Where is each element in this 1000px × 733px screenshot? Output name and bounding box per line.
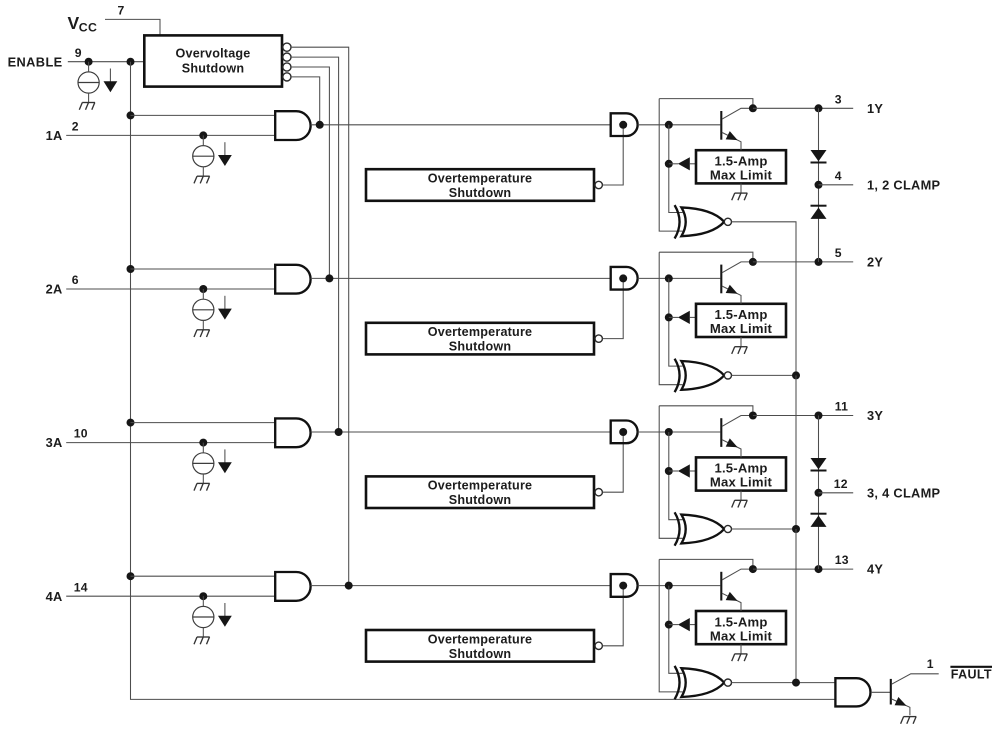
wire gate A2 output [311, 277, 611, 279]
arrow limit ch4 [678, 618, 690, 631]
bubble OT3 [595, 489, 602, 496]
wire vertical B ch4 [669, 586, 683, 674]
ground (ML2) [732, 347, 748, 354]
svg-text:Overtemperature: Overtemperature [428, 172, 533, 186]
svg-text:1Y: 1Y [867, 101, 883, 116]
wire vertical A ch2 [659, 252, 682, 385]
svg-text:Overvoltage: Overvoltage [176, 47, 251, 61]
node gate A2 output [325, 274, 333, 282]
diode D4 [811, 514, 827, 527]
wire enable bus vertical [131, 62, 836, 700]
wire ML2 ground stem [740, 337, 742, 347]
svg-text:1.5-Amp: 1.5-Amp [714, 307, 767, 322]
svg-text:5: 5 [835, 246, 842, 260]
svg-text:V: V [68, 13, 80, 33]
node output 1Y [815, 104, 823, 112]
transistor Q5 [891, 674, 939, 715]
and gate A2 [275, 265, 310, 294]
node limit feedback ch2 [665, 313, 673, 321]
node base junction ch4 [665, 582, 673, 590]
svg-text:Shutdown: Shutdown [449, 186, 511, 200]
ground (I5) [79, 103, 95, 110]
pin 4 label [835, 169, 842, 183]
svg-text:1A: 1A [46, 128, 63, 143]
transistor Q4 [721, 569, 753, 611]
wire gate G2 output [638, 277, 721, 279]
wire collector bracket ch1 [659, 99, 753, 109]
wire ML1 ground stem [740, 183, 742, 193]
current source I5 (enable) [78, 62, 99, 103]
diode D3 [811, 458, 827, 471]
svg-text:7: 7 [118, 4, 125, 18]
node output 4Y [815, 565, 823, 573]
pin 7 label [118, 4, 125, 18]
svg-text:1.5-Amp: 1.5-Amp [714, 154, 767, 169]
and gate G5 (fault) [835, 678, 870, 706]
pin 9 label [75, 46, 82, 60]
ground (Q5) [901, 717, 917, 724]
wire limit arrow ch2 [669, 316, 678, 318]
node limit feedback ch3 [665, 467, 673, 475]
node 1A tap [199, 131, 207, 139]
svg-text:Shutdown: Shutdown [449, 647, 511, 661]
pin 6 label [72, 273, 79, 287]
ground (I3) [194, 483, 210, 490]
pin 2 label [72, 120, 79, 134]
wire clamp chain 1-2 [818, 108, 820, 262]
node enable branch ch2 [127, 265, 135, 273]
svg-text:Max Limit: Max Limit [710, 168, 773, 183]
ground (I4) [194, 637, 210, 644]
svg-text:3, 4 CLAMP: 3, 4 CLAMP [867, 485, 941, 500]
pin 5 label [835, 246, 842, 260]
and gate G1 [611, 113, 638, 136]
wire X3 output [732, 528, 797, 530]
node gate A1 output [316, 121, 324, 129]
wire X1 output [732, 222, 797, 376]
wire gate G1 output [638, 124, 721, 126]
wire OT3 to gate G3 [603, 432, 624, 492]
overvoltage output bubbles [283, 43, 291, 81]
wire input 4A [66, 595, 275, 597]
wire pin 4 [819, 184, 854, 186]
label 3Y [867, 408, 883, 423]
svg-text:Max Limit: Max Limit [710, 321, 773, 336]
bubble OT1 [595, 181, 602, 188]
wire gate A4 output [311, 585, 611, 587]
wire input 2A [66, 288, 275, 290]
node inside gate G1 [619, 121, 627, 129]
wire X2 output [732, 374, 797, 376]
svg-text:Shutdown: Shutdown [449, 493, 511, 507]
bubble OT4 [595, 642, 602, 649]
svg-text:4A: 4A [46, 589, 63, 604]
label FAULT [951, 668, 992, 682]
node fault bus join [792, 679, 800, 687]
wire fault bus segment ch2 [795, 375, 797, 529]
wire overvoltage bus to channel 2 [291, 67, 329, 278]
fault overline [950, 666, 992, 668]
bubble OT2 [595, 335, 602, 342]
diode D2 [811, 206, 827, 219]
label 1Y [867, 101, 883, 116]
svg-text:4Y: 4Y [867, 562, 883, 577]
wire limit arrow ch3 [669, 470, 678, 472]
wire ML3 ground stem [740, 491, 742, 501]
svg-text:ENABLE: ENABLE [8, 54, 63, 69]
and gate A3 [275, 418, 310, 447]
svg-text:3Y: 3Y [867, 408, 883, 423]
wire arrow to box ch3 [690, 470, 696, 472]
svg-text:12: 12 [834, 477, 848, 491]
label 1, 2 CLAMP [867, 177, 941, 192]
svg-text:4: 4 [835, 169, 842, 183]
ground (ML1) [732, 193, 748, 200]
xnor gate X3 [675, 512, 732, 545]
pin 1 label [927, 657, 934, 671]
label 2A [46, 282, 63, 297]
pin 13 label [835, 553, 849, 567]
and gate A1 [275, 111, 310, 140]
overtemperature shutdown box OT2 [366, 323, 594, 355]
svg-text:1.5-Amp: 1.5-Amp [714, 461, 767, 476]
svg-text:Shutdown: Shutdown [182, 62, 244, 76]
svg-text:9: 9 [75, 46, 82, 60]
and gate A4 [275, 572, 310, 601]
node 4A tap [199, 592, 207, 600]
wire gate G4 output [638, 585, 721, 587]
svg-text:2A: 2A [46, 282, 63, 297]
wire ENABLE [68, 61, 145, 63]
arrow limit ch2 [678, 311, 690, 324]
svg-text:10: 10 [74, 427, 88, 441]
wire enable branch ch4 [131, 575, 276, 577]
wire pin 12 [819, 492, 854, 494]
arrow I5 [104, 69, 118, 93]
wire enable branch ch3 [131, 422, 276, 424]
arrow limit ch3 [678, 464, 690, 477]
node collector ch4 [749, 565, 757, 573]
node limit feedback ch4 [665, 621, 673, 629]
wire vertical B ch1 [669, 125, 683, 213]
svg-text:2: 2 [72, 120, 79, 134]
ground (ML3) [732, 500, 748, 507]
wire vertical A ch3 [659, 406, 682, 539]
wire overvoltage bus to channel 3 [291, 57, 339, 432]
wire output 3Y [753, 415, 853, 417]
overtemperature shutdown box OT1 [366, 169, 594, 201]
xnor gate X1 [675, 205, 732, 238]
label VCC [68, 13, 98, 35]
1.5-amp max limit box ML1 [696, 150, 786, 183]
wire overvoltage bus to channel 1 [291, 77, 320, 125]
node X2 bus join [792, 371, 800, 379]
wire vertical A ch4 [659, 559, 682, 692]
svg-text:14: 14 [74, 580, 88, 594]
current source I2 [193, 289, 214, 330]
wire ML4 ground stem [740, 644, 742, 654]
overtemperature shutdown box OT3 [366, 476, 594, 508]
diode D1 [811, 150, 827, 163]
svg-text:1: 1 [927, 657, 934, 671]
1.5-amp max limit box ML4 [696, 611, 786, 644]
wire enable branch ch1 [131, 114, 276, 116]
wire collector bracket ch4 [659, 559, 753, 569]
node collector ch3 [749, 412, 757, 420]
wire collector bracket ch3 [659, 406, 753, 416]
node 1,2 clamp [815, 181, 823, 189]
ground (I2) [194, 330, 210, 337]
transistor Q2 [721, 262, 753, 304]
wire fault gate output [871, 691, 890, 693]
wire input 1A [66, 134, 275, 136]
xnor gate X4 [675, 666, 732, 699]
wire VCC pin 7 [105, 19, 160, 35]
wire vertical B ch2 [669, 278, 683, 366]
wire gate G3 output [638, 431, 721, 433]
wire X4 output to fault gate [732, 682, 836, 684]
node base junction ch1 [665, 121, 673, 129]
wire fault bus segment ch3 [795, 529, 797, 683]
overtemperature shutdown box OT4 [366, 630, 594, 662]
svg-text:13: 13 [835, 553, 849, 567]
wire gate A1 output [311, 124, 611, 126]
node inside gate G2 [619, 274, 627, 282]
node 2A tap [199, 285, 207, 293]
and gate G4 [611, 574, 638, 597]
and gate G3 [611, 421, 638, 444]
node 3A tap [199, 439, 207, 447]
pin 12 label [834, 477, 848, 491]
svg-text:1.5-Amp: 1.5-Amp [714, 614, 767, 629]
transistor Q1 [721, 108, 753, 150]
node limit feedback ch1 [665, 160, 673, 168]
current source I1 [193, 135, 214, 176]
node output 3Y [815, 412, 823, 420]
svg-text:Max Limit: Max Limit [710, 475, 773, 490]
arrow limit ch1 [678, 157, 690, 170]
arrow I1 [218, 142, 232, 166]
ground (I1) [194, 176, 210, 183]
svg-text:3A: 3A [46, 435, 63, 450]
node X3 bus join [792, 525, 800, 533]
current source I4 [193, 596, 214, 637]
node enable branch ch3 [127, 419, 135, 427]
arrow I4 [218, 603, 232, 627]
label 4A [46, 589, 63, 604]
wire gate A3 output [311, 431, 611, 433]
wire collector bracket ch2 [659, 252, 753, 262]
node enable junction [85, 58, 93, 66]
svg-text:Max Limit: Max Limit [710, 628, 773, 643]
node enable branch ch4 [127, 572, 135, 580]
arrow I2 [218, 296, 232, 320]
wire OT2 to gate G2 [603, 278, 624, 338]
overvoltage shutdown box U5 [144, 35, 282, 86]
wire output 1Y [753, 107, 853, 109]
svg-text:CC: CC [79, 21, 97, 35]
pin 3 label [835, 92, 842, 106]
ground (ML4) [732, 654, 748, 661]
svg-text:1, 2 CLAMP: 1, 2 CLAMP [867, 177, 941, 192]
wire overvoltage bus to channel 4 [291, 47, 349, 585]
wire arrow to box ch2 [690, 316, 696, 318]
node gate A4 output [345, 582, 353, 590]
wire input 3A [66, 442, 275, 444]
and gate G2 [611, 267, 638, 290]
node enable branch ch1 [127, 111, 135, 119]
arrow I3 [218, 449, 232, 473]
label 3A [46, 435, 63, 450]
pin 11 label [835, 400, 848, 414]
1.5-amp max limit box ML3 [696, 457, 786, 490]
node collector ch2 [749, 258, 757, 266]
transistor Q3 [721, 416, 753, 458]
current source I3 [193, 443, 214, 484]
node gate A3 output [335, 428, 343, 436]
wire arrow to box ch4 [690, 624, 696, 626]
svg-text:6: 6 [72, 273, 79, 287]
node collector ch1 [749, 104, 757, 112]
node 3,4 clamp [815, 489, 823, 497]
pin 10 label [74, 427, 88, 441]
wire OT1 to gate G1 [603, 125, 624, 185]
wire limit arrow ch1 [669, 163, 678, 165]
pin 14 label [74, 580, 88, 594]
label 2Y [867, 254, 883, 269]
node enable bus tap [127, 58, 135, 66]
node inside gate G3 [619, 428, 627, 436]
wire OT4 to gate G4 [603, 586, 624, 646]
1.5-amp max limit box ML2 [696, 304, 786, 337]
wire vertical A ch1 [659, 99, 682, 232]
label 3, 4 CLAMP [867, 485, 941, 500]
svg-text:Overtemperature: Overtemperature [428, 632, 533, 646]
node base junction ch3 [665, 428, 673, 436]
wire output 2Y [753, 261, 853, 263]
node output 2Y [815, 258, 823, 266]
wire enable branch ch2 [131, 268, 276, 270]
wire output 4Y [753, 568, 853, 570]
wire clamp chain 3-4 [818, 416, 820, 570]
node inside gate G4 [619, 582, 627, 590]
svg-text:Overtemperature: Overtemperature [428, 325, 533, 339]
svg-text:Overtemperature: Overtemperature [428, 479, 533, 493]
label ENABLE [8, 54, 63, 69]
xnor gate X2 [675, 359, 732, 392]
svg-text:11: 11 [835, 400, 848, 414]
svg-text:2Y: 2Y [867, 254, 883, 269]
svg-text:FAULT: FAULT [951, 668, 992, 682]
label 4Y [867, 562, 883, 577]
label 1A [46, 128, 63, 143]
wire arrow to box ch1 [690, 163, 696, 165]
wire limit arrow ch4 [669, 624, 678, 626]
wire vertical B ch3 [669, 432, 683, 520]
svg-text:Shutdown: Shutdown [449, 340, 511, 354]
node base junction ch2 [665, 274, 673, 282]
svg-text:3: 3 [835, 92, 842, 106]
